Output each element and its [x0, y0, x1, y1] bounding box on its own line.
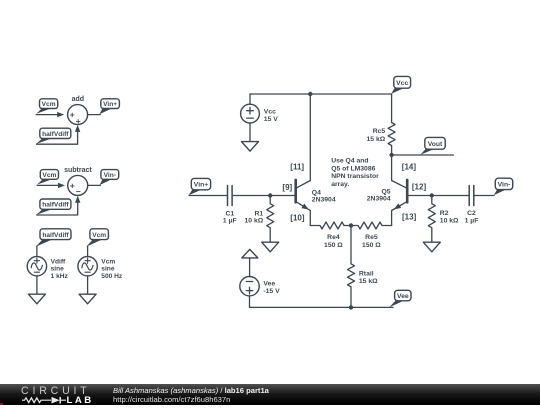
- svg-text:Q5 of LM3086: Q5 of LM3086: [331, 165, 375, 172]
- svg-text:Vin+: Vin+: [103, 101, 117, 108]
- node flag halfVdiff (subtract input): [36, 199, 71, 215]
- svg-text:Vcc: Vcc: [264, 108, 276, 115]
- svg-text:Vdiff: Vdiff: [51, 259, 66, 266]
- svg-text:Vin-: Vin-: [498, 182, 511, 189]
- summing block: add: [68, 96, 88, 126]
- source V4 Vcm sine 500 Hz: [78, 257, 123, 280]
- node flag Vcm (add input): [36, 99, 57, 114]
- svg-text:Vin+: Vin+: [194, 182, 208, 189]
- svg-text:array.: array.: [331, 181, 349, 188]
- ground (R2): [423, 242, 440, 252]
- resistor Rc5: [367, 94, 396, 155]
- wire Q4 emitter down: [309, 211, 311, 226]
- svg-text:[14]: [14]: [402, 162, 417, 171]
- red corner mark: [0, 403, 3, 406]
- svg-text:1 µF: 1 µF: [465, 217, 479, 224]
- svg-text:500 Hz: 500 Hz: [101, 273, 123, 280]
- svg-text:Vcm: Vcm: [42, 172, 56, 179]
- svg-text:C2: C2: [467, 210, 476, 217]
- svg-text:[13]: [13]: [402, 213, 417, 222]
- wire Vout: [392, 154, 454, 156]
- junction node 12: [430, 193, 434, 197]
- svg-text:Vin-: Vin-: [104, 172, 116, 179]
- wire into subtract left with arrow: [37, 183, 65, 188]
- node flag Vin+ (add output): [99, 99, 119, 115]
- svg-text:halfVdiff: halfVdiff: [42, 202, 69, 209]
- source V3 Vdiff sine 1 kHz: [27, 257, 68, 280]
- wire Vcc source to ground: [249, 123, 251, 142]
- svg-text:2N3904: 2N3904: [367, 196, 391, 203]
- ground (V3): [28, 294, 45, 304]
- CircuitLab logo resistor+diode glyph: [22, 396, 67, 405]
- CircuitLab logo LAB: [67, 395, 94, 406]
- svg-text:150 Ω: 150 Ω: [324, 242, 343, 249]
- footer url line: [113, 395, 230, 404]
- svg-text:Vcm: Vcm: [92, 232, 106, 239]
- svg-text:subtract: subtract: [64, 167, 92, 174]
- capacitor C1: [223, 186, 237, 225]
- node flag Vcm (subtract input): [37, 170, 58, 185]
- svg-text:[12]: [12]: [412, 183, 427, 192]
- junction node 14: [389, 153, 393, 157]
- annotation: Use Q4 and Q5 of LM3086 NPN transistor array.: [331, 158, 379, 188]
- capacitor C2: [465, 186, 479, 225]
- wire Q4 collector up: [309, 94, 311, 181]
- wire bottom rail: [250, 306, 394, 308]
- ground (R1): [262, 242, 279, 252]
- svg-text:15 kΩ: 15 kΩ: [359, 278, 378, 285]
- svg-text:Vee: Vee: [397, 293, 409, 300]
- svg-text:add: add: [72, 96, 84, 103]
- wire ground to Vee source: [249, 258, 251, 277]
- svg-text:R1: R1: [254, 211, 263, 218]
- voltage source Vee -15 V: [240, 277, 280, 296]
- svg-text:Q4: Q4: [312, 190, 321, 197]
- svg-text:10 kΩ: 10 kΩ: [245, 218, 264, 225]
- wire Vee source to rail: [249, 296, 251, 308]
- node flag Vin+ (main input): [189, 178, 211, 195]
- wire V3 to ground: [36, 276, 38, 294]
- wire Q5 emitter down: [391, 211, 393, 226]
- wire C1 to Q4 base: [232, 195, 295, 197]
- svg-text:Vout: Vout: [428, 141, 443, 148]
- node flag Vcc (top right): [391, 76, 410, 93]
- svg-text:150 Ω: 150 Ω: [362, 242, 381, 249]
- node flag Vin- (subtract output): [100, 170, 119, 186]
- resistor R1: [245, 196, 274, 243]
- svg-text:sine: sine: [51, 266, 65, 273]
- svg-text:Vee: Vee: [263, 281, 275, 288]
- resistor Re5: [351, 222, 392, 249]
- wire Q5 collector up: [391, 155, 393, 181]
- wire Vcc source to rail: [249, 94, 251, 104]
- svg-text:2N3904: 2N3904: [312, 197, 336, 204]
- resistor R2: [428, 196, 459, 243]
- svg-text:[10]: [10]: [290, 214, 305, 223]
- transistor Q5: [367, 180, 407, 211]
- svg-text:sine: sine: [101, 266, 115, 273]
- junction top rail: [308, 92, 312, 96]
- CircuitLab logo wordmark CIRCUIT: [21, 385, 91, 397]
- node flag Vin- (main): [494, 178, 513, 195]
- wire Vin+ to C1: [189, 195, 227, 197]
- node flag halfVdiff (add input): [36, 128, 71, 144]
- svg-text:Re5: Re5: [365, 234, 378, 241]
- ground up (Vee): [242, 249, 258, 258]
- wire flag to V4: [87, 246, 89, 256]
- svg-text:+: +: [70, 180, 75, 190]
- wire flag to V3: [36, 246, 38, 256]
- svg-text:Q5: Q5: [382, 189, 391, 196]
- svg-text:+: +: [70, 110, 75, 120]
- svg-text:halfVdiff: halfVdiff: [42, 131, 69, 138]
- svg-text:NPN transistor: NPN transistor: [331, 173, 379, 180]
- voltage source Vcc 15 V: [241, 104, 279, 123]
- svg-text:Use Q4 and: Use Q4 and: [331, 158, 368, 165]
- transistor Q4: [296, 180, 336, 211]
- wire C2 to Vin- flag: [474, 195, 494, 197]
- wire into subtract bottom with arrow: [37, 196, 81, 215]
- junction bottom rail: [349, 305, 353, 309]
- resistor Re4: [310, 222, 351, 249]
- node flag Vcm (source V4): [86, 229, 108, 247]
- node flag halfVdiff (source V3): [36, 229, 71, 247]
- node flag Vout: [420, 137, 445, 154]
- svg-text:Vcm: Vcm: [42, 101, 56, 108]
- node flag Vee: [389, 290, 411, 307]
- summing block: subtract: [64, 167, 92, 197]
- wire into add left with arrow: [36, 112, 64, 117]
- svg-text:−: −: [76, 187, 81, 197]
- svg-text:10 kΩ: 10 kΩ: [440, 217, 459, 224]
- svg-text:-15 V: -15 V: [263, 288, 280, 295]
- svg-text:+: +: [76, 116, 81, 126]
- svg-text:Re4: Re4: [327, 234, 340, 241]
- wire subtract output: [88, 184, 101, 186]
- resistor Rtail: [348, 226, 379, 308]
- ground (Vcc): [242, 142, 259, 152]
- svg-text:[11]: [11]: [290, 163, 304, 172]
- svg-text:Rc5: Rc5: [373, 128, 386, 135]
- svg-text:Vcm: Vcm: [101, 259, 115, 266]
- svg-text:[9]: [9]: [282, 183, 292, 192]
- svg-text:15 kΩ: 15 kΩ: [367, 136, 386, 143]
- wire Q5 base to C2: [407, 195, 469, 197]
- junction Re4/Re5/Rtail: [349, 223, 353, 227]
- svg-text:Vcc: Vcc: [396, 80, 408, 87]
- svg-text:1 kHz: 1 kHz: [51, 273, 69, 280]
- junction node 9: [268, 193, 272, 197]
- wire into add bottom with arrow: [37, 125, 81, 144]
- svg-text:halfVdiff: halfVdiff: [42, 232, 69, 239]
- svg-text:C1: C1: [225, 211, 234, 218]
- wire top rail: [250, 93, 392, 95]
- footer attribution line: [113, 386, 269, 395]
- wire V4 to ground: [87, 276, 89, 294]
- svg-text:1 µF: 1 µF: [223, 218, 237, 225]
- svg-text:Rtail: Rtail: [359, 271, 374, 278]
- wire add output: [88, 114, 101, 116]
- svg-text:R2: R2: [440, 210, 449, 217]
- svg-text:15 V: 15 V: [264, 116, 278, 123]
- ground (V4): [79, 294, 96, 304]
